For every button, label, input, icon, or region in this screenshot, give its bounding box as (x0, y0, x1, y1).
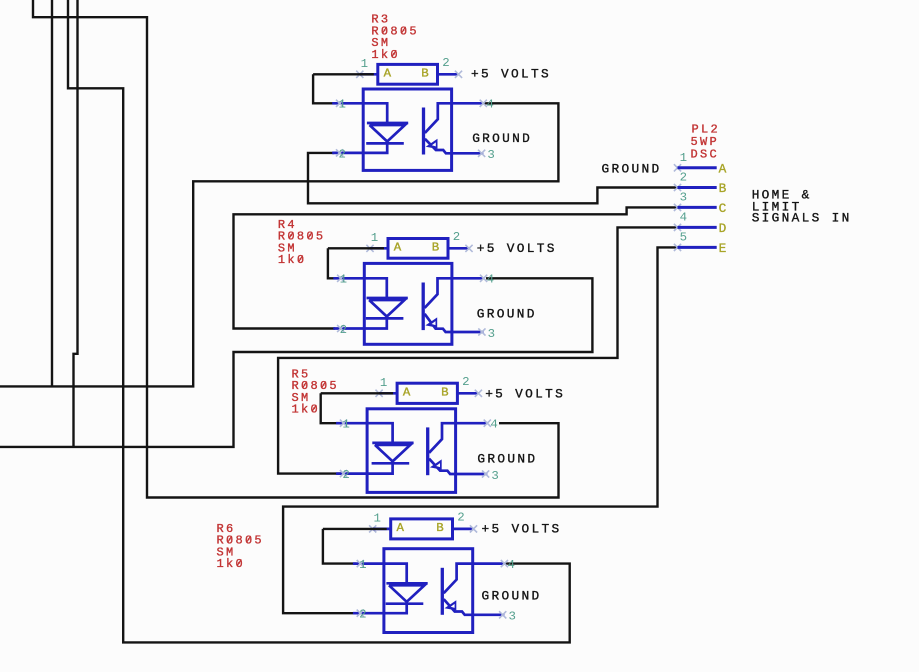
svg-text:A: A (394, 241, 402, 255)
connector PL2 pin 5 (E) (674, 231, 727, 256)
optocoupler R6 pin 2 (353, 608, 384, 622)
wire R5 resistor pin1 to optocoupler anode (321, 393, 393, 423)
wire R3 cathode to PL2 pin B (308, 153, 678, 203)
LED diode inside R3 optocoupler (363, 103, 408, 153)
svg-text:E: E (719, 241, 727, 256)
wire branch to top edge (node B vertical x=52) (51, 0, 53, 386)
optocoupler R5 pin 3 (456, 469, 499, 483)
svg-text:1k0: 1k0 (371, 48, 399, 62)
label +5 VOLTS (R4) (477, 241, 557, 256)
optocoupler R3 pin 3 (452, 148, 495, 162)
label +5 VOLTS (R5) (485, 387, 565, 402)
label +5 VOLTS (R6) (482, 522, 562, 537)
wire net R6 collector out (pin4 to top edge) (68, 0, 570, 642)
svg-text:2: 2 (457, 511, 464, 525)
svg-text:1: 1 (342, 418, 349, 432)
svg-text:GROUND: GROUND (472, 131, 532, 146)
label R5 value text (R0805 SM 1k0) (292, 367, 339, 416)
wire branch to top edge (jogged vertical x=77.5) (74, 0, 78, 447)
svg-text:1: 1 (680, 151, 687, 165)
pin 1 of R5 (376, 376, 398, 397)
svg-text:1: 1 (380, 376, 387, 390)
optocoupler R4 pin 3 (452, 327, 495, 341)
label R3 value text (R0805 SM 1k0) (371, 13, 418, 62)
resistor R4 body (388, 239, 448, 259)
label GROUND (R3) (472, 131, 532, 146)
optocoupler U-R5 body (367, 409, 456, 493)
label +5 VOLTS (R3) (471, 67, 551, 82)
optocoupler R6 pin 1 (353, 558, 384, 572)
svg-text:1k0: 1k0 (278, 253, 306, 267)
svg-text:2: 2 (340, 323, 347, 337)
optocoupler R3 pin 1 (332, 98, 363, 112)
svg-text:+5 VOLTS: +5 VOLTS (485, 387, 565, 402)
svg-text:B: B (421, 67, 428, 81)
label R4 value text (R0805 SM 1k0) (278, 218, 325, 267)
optocoupler U-R6 body (384, 549, 473, 633)
svg-text:GROUND: GROUND (477, 451, 537, 466)
svg-text:1k0: 1k0 (217, 557, 245, 571)
wire net R5 collector out (pin4 to top edge) (33, 0, 559, 498)
svg-text:B: B (436, 521, 443, 535)
LED diode inside R4 optocoupler (364, 278, 408, 328)
svg-text:1: 1 (371, 231, 378, 245)
wire R3 resistor pin1 to optocoupler anode (313, 74, 374, 103)
phototransistor inside R5 optocoupler (428, 423, 456, 475)
connector PL2 label (691, 123, 720, 162)
svg-text:4: 4 (680, 211, 687, 225)
phototransistor inside R6 optocoupler (442, 564, 472, 615)
optocoupler R3 pin 2 (332, 147, 363, 161)
svg-text:4: 4 (507, 558, 514, 572)
LED diode inside R6 optocoupler (384, 564, 428, 614)
wire R4 resistor pin1 to optocoupler anode (328, 248, 384, 278)
svg-text:+5 VOLTS: +5 VOLTS (477, 241, 557, 256)
pin 1 of R4 (366, 231, 388, 252)
svg-text:3: 3 (487, 148, 494, 162)
svg-text:2: 2 (359, 608, 366, 622)
pin 1 of R6 (369, 511, 391, 532)
svg-text:+5 VOLTS: +5 VOLTS (482, 522, 562, 537)
optocoupler R5 pin 4 (456, 418, 498, 432)
svg-text:1: 1 (340, 273, 347, 287)
wire R4 cathode to PL2 pin C (234, 207, 678, 328)
label HOME & LIMIT SIGNALS IN (752, 188, 852, 226)
phototransistor inside R4 optocoupler (423, 278, 452, 332)
svg-text:3: 3 (488, 327, 495, 341)
svg-text:SIGNALS IN: SIGNALS IN (752, 211, 852, 226)
svg-text:D: D (719, 221, 727, 236)
svg-text:A: A (403, 386, 411, 400)
optocoupler R4 pin 1 (333, 273, 364, 287)
resistor R5 body (397, 383, 457, 403)
svg-text:1: 1 (338, 98, 345, 112)
label R6 value text (R0805 SM 1k0) (217, 522, 264, 571)
optocoupler R5 pin 2 (336, 468, 367, 482)
svg-text:3: 3 (680, 191, 687, 205)
optocoupler R4 pin 2 (333, 323, 364, 337)
optocoupler R4 pin 4 (452, 273, 494, 287)
svg-text:2: 2 (462, 375, 469, 389)
LED diode inside R5 optocoupler (367, 423, 414, 473)
label GROUND (R5) (477, 451, 537, 466)
pin 2 of R4 (+5 VOLTS) (448, 230, 473, 252)
svg-text:GROUND: GROUND (477, 306, 537, 321)
pin 1 of R3 (356, 57, 378, 78)
phototransistor inside R3 optocoupler (424, 103, 452, 154)
svg-text:A: A (384, 67, 392, 81)
svg-text:4: 4 (487, 273, 494, 287)
svg-text:1: 1 (373, 511, 380, 525)
optocoupler R6 pin 4 (473, 558, 515, 572)
svg-text:2: 2 (342, 468, 349, 482)
svg-text:GROUND: GROUND (602, 161, 662, 176)
connector PL2 pin 1 (A) (674, 151, 727, 176)
label GROUND (R6) (482, 588, 542, 603)
svg-text:4: 4 (486, 98, 493, 112)
svg-text:DSC: DSC (691, 148, 719, 162)
pin 2 of R5 (+5 VOLTS) (457, 375, 482, 397)
svg-text:2: 2 (680, 171, 687, 185)
svg-text:B: B (719, 181, 727, 196)
optocoupler R5 pin 1 (336, 418, 367, 432)
svg-text:B: B (432, 241, 439, 255)
wire R6 resistor pin1 to optocoupler anode (323, 529, 387, 564)
label GROUND (PL2 pin A) (602, 161, 662, 176)
svg-text:1: 1 (359, 558, 366, 572)
label GROUND (R4) (477, 306, 537, 321)
svg-text:2: 2 (453, 230, 460, 244)
svg-text:3: 3 (491, 469, 498, 483)
resistor R6 body (391, 519, 453, 539)
svg-text:B: B (441, 386, 448, 400)
svg-text:1k0: 1k0 (292, 403, 320, 417)
wire R6 cathode to PL2 pin E (283, 247, 677, 613)
connector PL2 pin 2 (B) (674, 171, 727, 196)
wire R5 cathode to PL2 pin D (278, 227, 677, 473)
svg-text:2: 2 (442, 56, 449, 70)
svg-text:GROUND: GROUND (482, 588, 542, 603)
wire net R3 collector out (pin4 to left edge) (0, 103, 558, 386)
optocoupler R3 pin 4 (452, 98, 494, 112)
svg-text:+5 VOLTS: +5 VOLTS (471, 67, 551, 82)
wire net R4 collector out (pin4 to left edge) (0, 278, 592, 447)
svg-text:A: A (719, 161, 727, 176)
svg-text:3: 3 (508, 610, 515, 624)
svg-text:C: C (719, 201, 727, 216)
svg-text:5: 5 (680, 231, 687, 245)
svg-text:2: 2 (338, 147, 345, 161)
connector PL2 pin 4 (D) (674, 211, 727, 236)
svg-text:A: A (396, 521, 404, 535)
pin 2 of R6 (+5 VOLTS) (453, 511, 478, 533)
svg-text:4: 4 (490, 418, 497, 432)
optocoupler U-R3 body (363, 89, 451, 170)
svg-text:1: 1 (361, 57, 368, 71)
pin 2 of R3 (+5 VOLTS) (438, 56, 463, 78)
connector PL2 pin 3 (C) (674, 191, 727, 216)
optocoupler U-R4 body (364, 263, 452, 344)
resistor R3 body (378, 64, 438, 84)
optocoupler R6 pin 3 (473, 610, 516, 624)
